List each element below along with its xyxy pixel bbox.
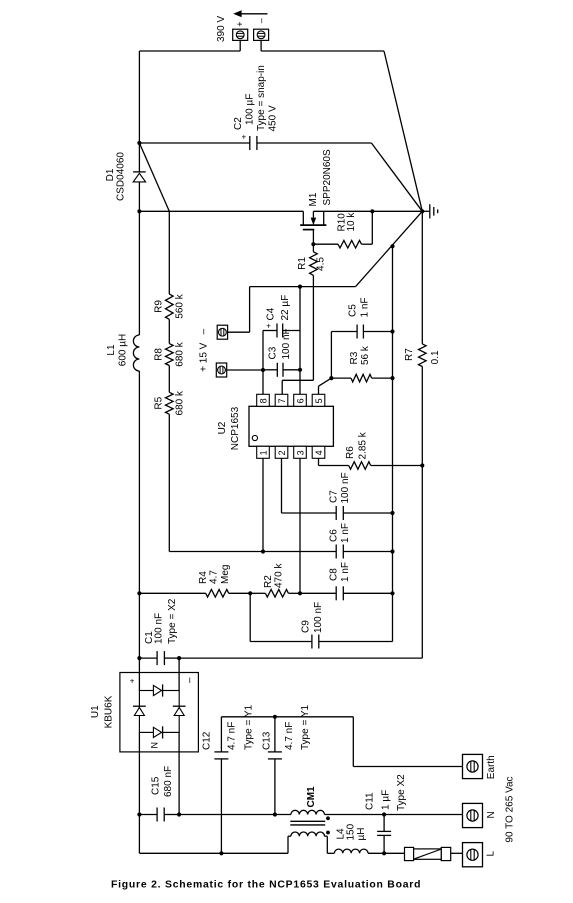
wire [261, 50, 384, 52]
capacitor C1 100nF X2 [139, 598, 179, 665]
wire [353, 766, 462, 768]
wire [178, 732, 180, 814]
wire [421, 367, 423, 659]
svg-text:U1: U1 [90, 705, 101, 718]
resistor R2 470k [263, 563, 302, 598]
svg-text:R4: R4 [198, 571, 209, 584]
resistor R8 680k [154, 319, 186, 366]
resistor R10 10k [313, 209, 374, 248]
wire [139, 50, 240, 52]
svg-text:Type = snap-in: Type = snap-in [256, 65, 267, 131]
capacitor C12 4.7nF Y1 [201, 704, 254, 853]
node R4 left [137, 591, 141, 595]
svg-text:5: 5 [314, 398, 324, 403]
resistor R6 2.85k [345, 431, 424, 469]
svg-text:680 k: 680 k [175, 341, 186, 366]
svg-text:+: + [242, 133, 247, 142]
resistor R7 0.1 [404, 344, 441, 367]
wire [392, 246, 394, 641]
svg-text:1 nF: 1 nF [340, 523, 351, 543]
svg-text:Type = Y1: Type = Y1 [300, 704, 311, 750]
terminal 390V- [254, 18, 269, 40]
wire [239, 40, 241, 51]
svg-text:10 k: 10 k [346, 212, 357, 232]
wire [356, 211, 423, 286]
svg-text:22 µF: 22 µF [280, 295, 291, 321]
node gate [311, 242, 315, 246]
wire [451, 852, 463, 854]
svg-text:L1: L1 [106, 344, 117, 356]
capacitor C13 4.7nF Y1 [261, 704, 310, 814]
inductor CM1 common mode choke [288, 786, 330, 853]
terminal Earth [463, 754, 498, 779]
svg-text:150: 150 [346, 823, 357, 840]
node output+ [137, 141, 141, 145]
capacitor C8 1nF [328, 562, 394, 600]
terminal L [463, 843, 497, 867]
wire [139, 142, 249, 144]
svg-text:R2: R2 [263, 575, 274, 588]
wire [313, 210, 422, 212]
svg-text:CM1: CM1 [306, 786, 317, 808]
svg-text:C11: C11 [365, 792, 376, 810]
svg-text:D1: D1 [105, 168, 116, 181]
wire [371, 143, 422, 211]
bridge rectifier U1 KBU6K [90, 673, 198, 752]
svg-text:Meg: Meg [220, 565, 231, 584]
transistor M1 SPP20N60S [300, 149, 333, 244]
svg-text:90 TO 265 Vac: 90 TO 265 Vac [504, 776, 515, 842]
svg-text:3: 3 [295, 450, 305, 455]
svg-text:R9: R9 [154, 300, 165, 313]
wire [138, 593, 140, 658]
capacitor C4 22uF [263, 287, 300, 370]
svg-text:C13: C13 [261, 731, 272, 750]
wire [168, 414, 170, 551]
wire [139, 592, 205, 594]
wire [179, 814, 291, 816]
wire [138, 658, 140, 690]
svg-text:7: 7 [277, 398, 287, 403]
wire [281, 458, 283, 513]
inductor L4 150uH [334, 823, 368, 853]
svg-text:KBU6K: KBU6K [103, 695, 114, 728]
svg-text:R3: R3 [349, 351, 360, 364]
svg-text:+: + [266, 321, 271, 330]
wire [327, 852, 334, 854]
svg-text:100 µF: 100 µF [244, 94, 255, 125]
wire [262, 458, 264, 551]
svg-text:Type X2: Type X2 [396, 774, 407, 811]
node IC ground [298, 285, 302, 289]
resistor R1 4.5 [297, 244, 326, 380]
wire [139, 210, 303, 212]
svg-text:Type = X2: Type = X2 [167, 598, 178, 644]
resistor R5 680k [154, 366, 186, 416]
svg-text:C9: C9 [301, 620, 312, 633]
svg-text:N: N [150, 742, 160, 749]
fuse F1 [405, 847, 451, 860]
svg-text:L4: L4 [335, 828, 346, 840]
svg-text:C15: C15 [151, 776, 162, 795]
svg-text:6: 6 [295, 398, 305, 403]
svg-text:1 µF: 1 µF [381, 790, 392, 810]
wire [249, 287, 251, 333]
ground [420, 204, 438, 218]
svg-text:+ 15 V –: + 15 V – [199, 328, 210, 372]
svg-text:8: 8 [258, 398, 268, 403]
svg-text:100 nF: 100 nF [340, 472, 351, 503]
svg-text:2: 2 [277, 450, 287, 455]
wire [318, 386, 320, 394]
wire [325, 814, 463, 816]
resistor R4 4.7Meg [198, 565, 250, 598]
svg-text:SPP20N60S: SPP20N60S [322, 149, 333, 205]
svg-text:CSD04060: CSD04060 [116, 152, 127, 201]
svg-text:C3: C3 [268, 346, 279, 359]
wire [250, 286, 356, 288]
svg-text:56 k: 56 k [360, 345, 371, 365]
wire [319, 378, 332, 386]
wire [352, 717, 354, 767]
svg-text:0.1: 0.1 [430, 350, 441, 364]
svg-text:–: – [256, 18, 266, 23]
wire [260, 40, 262, 51]
node signal bus [390, 244, 394, 248]
resistor R3 56k [329, 345, 394, 382]
svg-text:1 nF: 1 nF [340, 562, 351, 582]
svg-text:–: – [184, 677, 195, 683]
inductor L1 600uH [106, 211, 139, 593]
terminal +15V(-) [217, 325, 227, 339]
svg-text:NCP1653: NCP1653 [230, 406, 241, 450]
wire [228, 331, 250, 333]
wire [138, 815, 140, 854]
svg-text:4.7 nF: 4.7 nF [227, 722, 238, 750]
svg-text:R1: R1 [297, 257, 308, 270]
capacitor C11 1uF X2 [365, 774, 408, 853]
svg-text:C8: C8 [328, 568, 339, 581]
svg-text:600 µH: 600 µH [118, 334, 129, 366]
svg-text:µH: µH [356, 828, 367, 841]
op-amp U2 NCP1653 [217, 394, 333, 458]
svg-text:M1: M1 [308, 192, 319, 206]
terminal N [463, 803, 498, 827]
svg-text:N: N [486, 811, 497, 818]
svg-text:390 V: 390 V [216, 16, 227, 42]
wire [139, 143, 169, 211]
wire [138, 732, 140, 814]
svg-text:100 nF: 100 nF [281, 328, 292, 359]
svg-text:4.7 nF: 4.7 nF [284, 722, 295, 750]
node FB [261, 549, 265, 553]
svg-text:560 k: 560 k [175, 293, 186, 318]
wire [179, 657, 422, 659]
svg-text:680 nF: 680 nF [163, 766, 174, 797]
wire [257, 142, 372, 144]
svg-text:C6: C6 [328, 529, 339, 542]
capacitor C15 680nF [139, 766, 179, 822]
wire [227, 369, 263, 371]
svg-text:Figure 2. Schematic for the NC: Figure 2. Schematic for the NCP1653 Eval… [111, 880, 421, 891]
resistor R9 560k [154, 211, 186, 319]
node C1 left [137, 656, 141, 660]
svg-text:R8: R8 [154, 348, 165, 361]
svg-text:L: L [485, 851, 496, 857]
wire [139, 852, 288, 854]
wire [169, 551, 263, 553]
svg-text:C7: C7 [328, 490, 339, 503]
wire [282, 512, 337, 514]
wire [299, 458, 301, 593]
svg-text:R6: R6 [345, 446, 356, 459]
wire [300, 592, 336, 594]
svg-text:C2: C2 [233, 117, 244, 130]
wire [221, 716, 353, 718]
capacitor C5 1nF [331, 297, 394, 378]
svg-text:450 V: 450 V [268, 105, 279, 131]
capacitor C3 100nF [261, 328, 302, 376]
capacitor C7 100nF [328, 472, 394, 520]
node 390V output arrow [216, 10, 267, 42]
wire [384, 51, 422, 211]
svg-text:+: + [130, 677, 135, 686]
terminal +15V(+) [216, 363, 226, 377]
wire [318, 458, 320, 465]
svg-text:4.7: 4.7 [209, 570, 220, 584]
svg-text:100 nF: 100 nF [313, 602, 324, 633]
wire [281, 380, 283, 394]
svg-text:680 k: 680 k [175, 390, 186, 415]
svg-text:1: 1 [258, 450, 268, 455]
svg-text:2.85 k: 2.85 k [358, 431, 369, 459]
svg-text:R5: R5 [154, 396, 165, 409]
svg-text:4: 4 [314, 450, 324, 455]
svg-text:1 nF: 1 nF [360, 297, 371, 317]
wire [250, 592, 265, 594]
svg-text:100 nF: 100 nF [154, 613, 165, 644]
svg-text:Earth: Earth [486, 755, 497, 779]
svg-text:C4: C4 [265, 307, 276, 320]
wire [262, 370, 264, 394]
wire [319, 465, 349, 467]
diode D1 CSD04060 [105, 143, 146, 211]
svg-text:R7: R7 [404, 348, 415, 361]
svg-text:C5: C5 [348, 304, 359, 317]
wire [368, 852, 405, 854]
svg-text:4.5: 4.5 [316, 257, 327, 271]
capacitor C9 100nF [250, 593, 392, 648]
capacitor C6 1nF [263, 523, 395, 559]
node drain [137, 209, 141, 213]
svg-text:U2: U2 [217, 421, 228, 434]
wire [299, 370, 301, 395]
svg-text:Type = Y1: Type = Y1 [243, 704, 254, 750]
svg-text:C12: C12 [201, 731, 212, 750]
terminal 390V+ [233, 22, 248, 41]
wire [178, 658, 180, 690]
wire [138, 51, 140, 143]
svg-text:470 k: 470 k [274, 563, 285, 588]
wire [282, 379, 313, 381]
svg-text:+: + [235, 22, 245, 27]
capacitor C2 [233, 65, 279, 150]
wire [421, 211, 423, 344]
